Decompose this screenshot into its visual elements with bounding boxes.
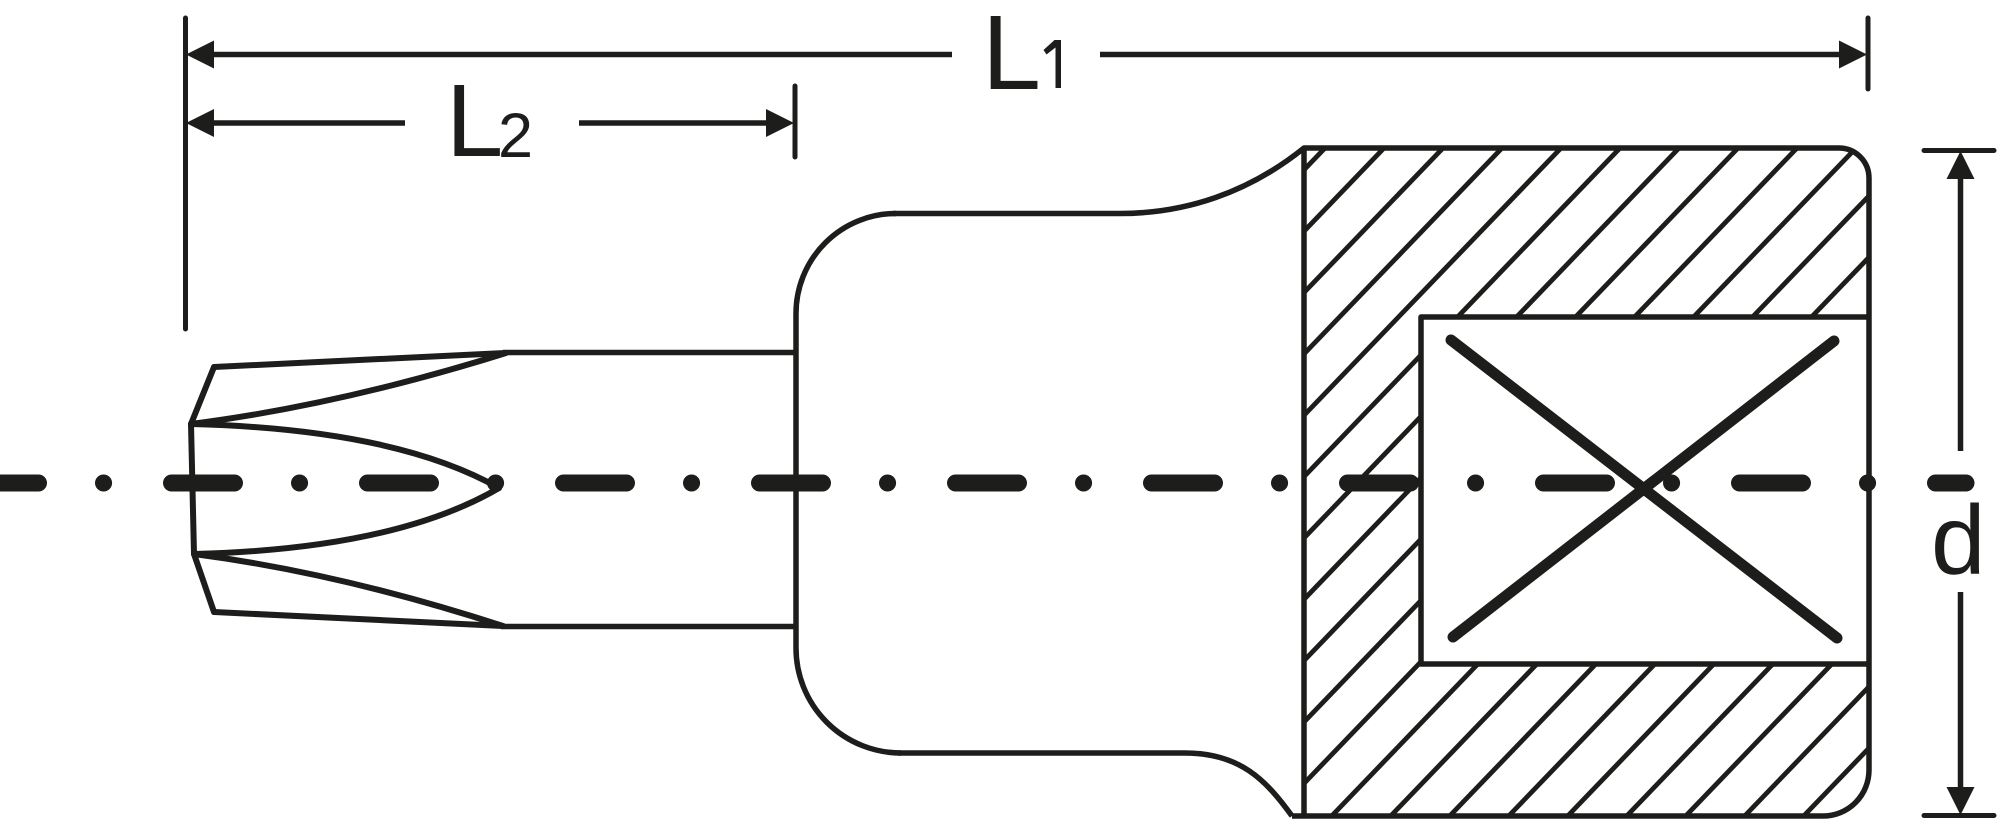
torx bottom edge [214, 612, 503, 626]
hatching of socket body cross-section [543, 100, 2000, 820]
L1 extension line left [183, 18, 188, 329]
L2 arrow right [766, 109, 794, 137]
L1 dimension line [210, 52, 1843, 58]
socket body outline [1292, 148, 1869, 816]
L2 extension line right [793, 86, 798, 157]
torx left face [191, 367, 214, 612]
torx top edge [214, 353, 505, 367]
d arrow up [1947, 151, 1975, 179]
svg-text:2: 2 [498, 101, 533, 171]
d arrow down [1947, 787, 1975, 815]
collar bottom edge [898, 750, 1185, 756]
svg-text:L: L [446, 63, 503, 178]
L1 extension line right [1866, 18, 1871, 89]
neck S-curve bottom [1185, 753, 1292, 816]
L2 arrow left [186, 109, 214, 137]
L1 arrow right [1839, 41, 1867, 69]
center line (dash-dot axis) [0, 475, 1966, 492]
torx lobe parabola upper branch [191, 424, 499, 488]
collar top edge [893, 211, 1120, 217]
L1 arrow left [186, 41, 214, 69]
svg-text:d: d [1931, 485, 1986, 595]
d bottom tick [1924, 813, 1994, 818]
torx lower groove curve [194, 554, 503, 626]
step face with fillets to collar [796, 214, 901, 754]
torx upper groove curve [191, 353, 506, 424]
neck S-curve top [1120, 148, 1304, 214]
torx bit tip outline [191, 353, 506, 626]
L2 dimension line [210, 120, 770, 126]
d dimension line [1958, 176, 1964, 790]
svg-text:L: L [982, 0, 1041, 112]
d top tick [1924, 148, 1994, 153]
torx lobe parabola lower branch [194, 488, 499, 554]
cross mark X in square drive [1451, 340, 1837, 638]
shaft bottom edge [501, 624, 796, 630]
square drive opening [1421, 317, 1869, 664]
shaft top edge [503, 350, 796, 356]
